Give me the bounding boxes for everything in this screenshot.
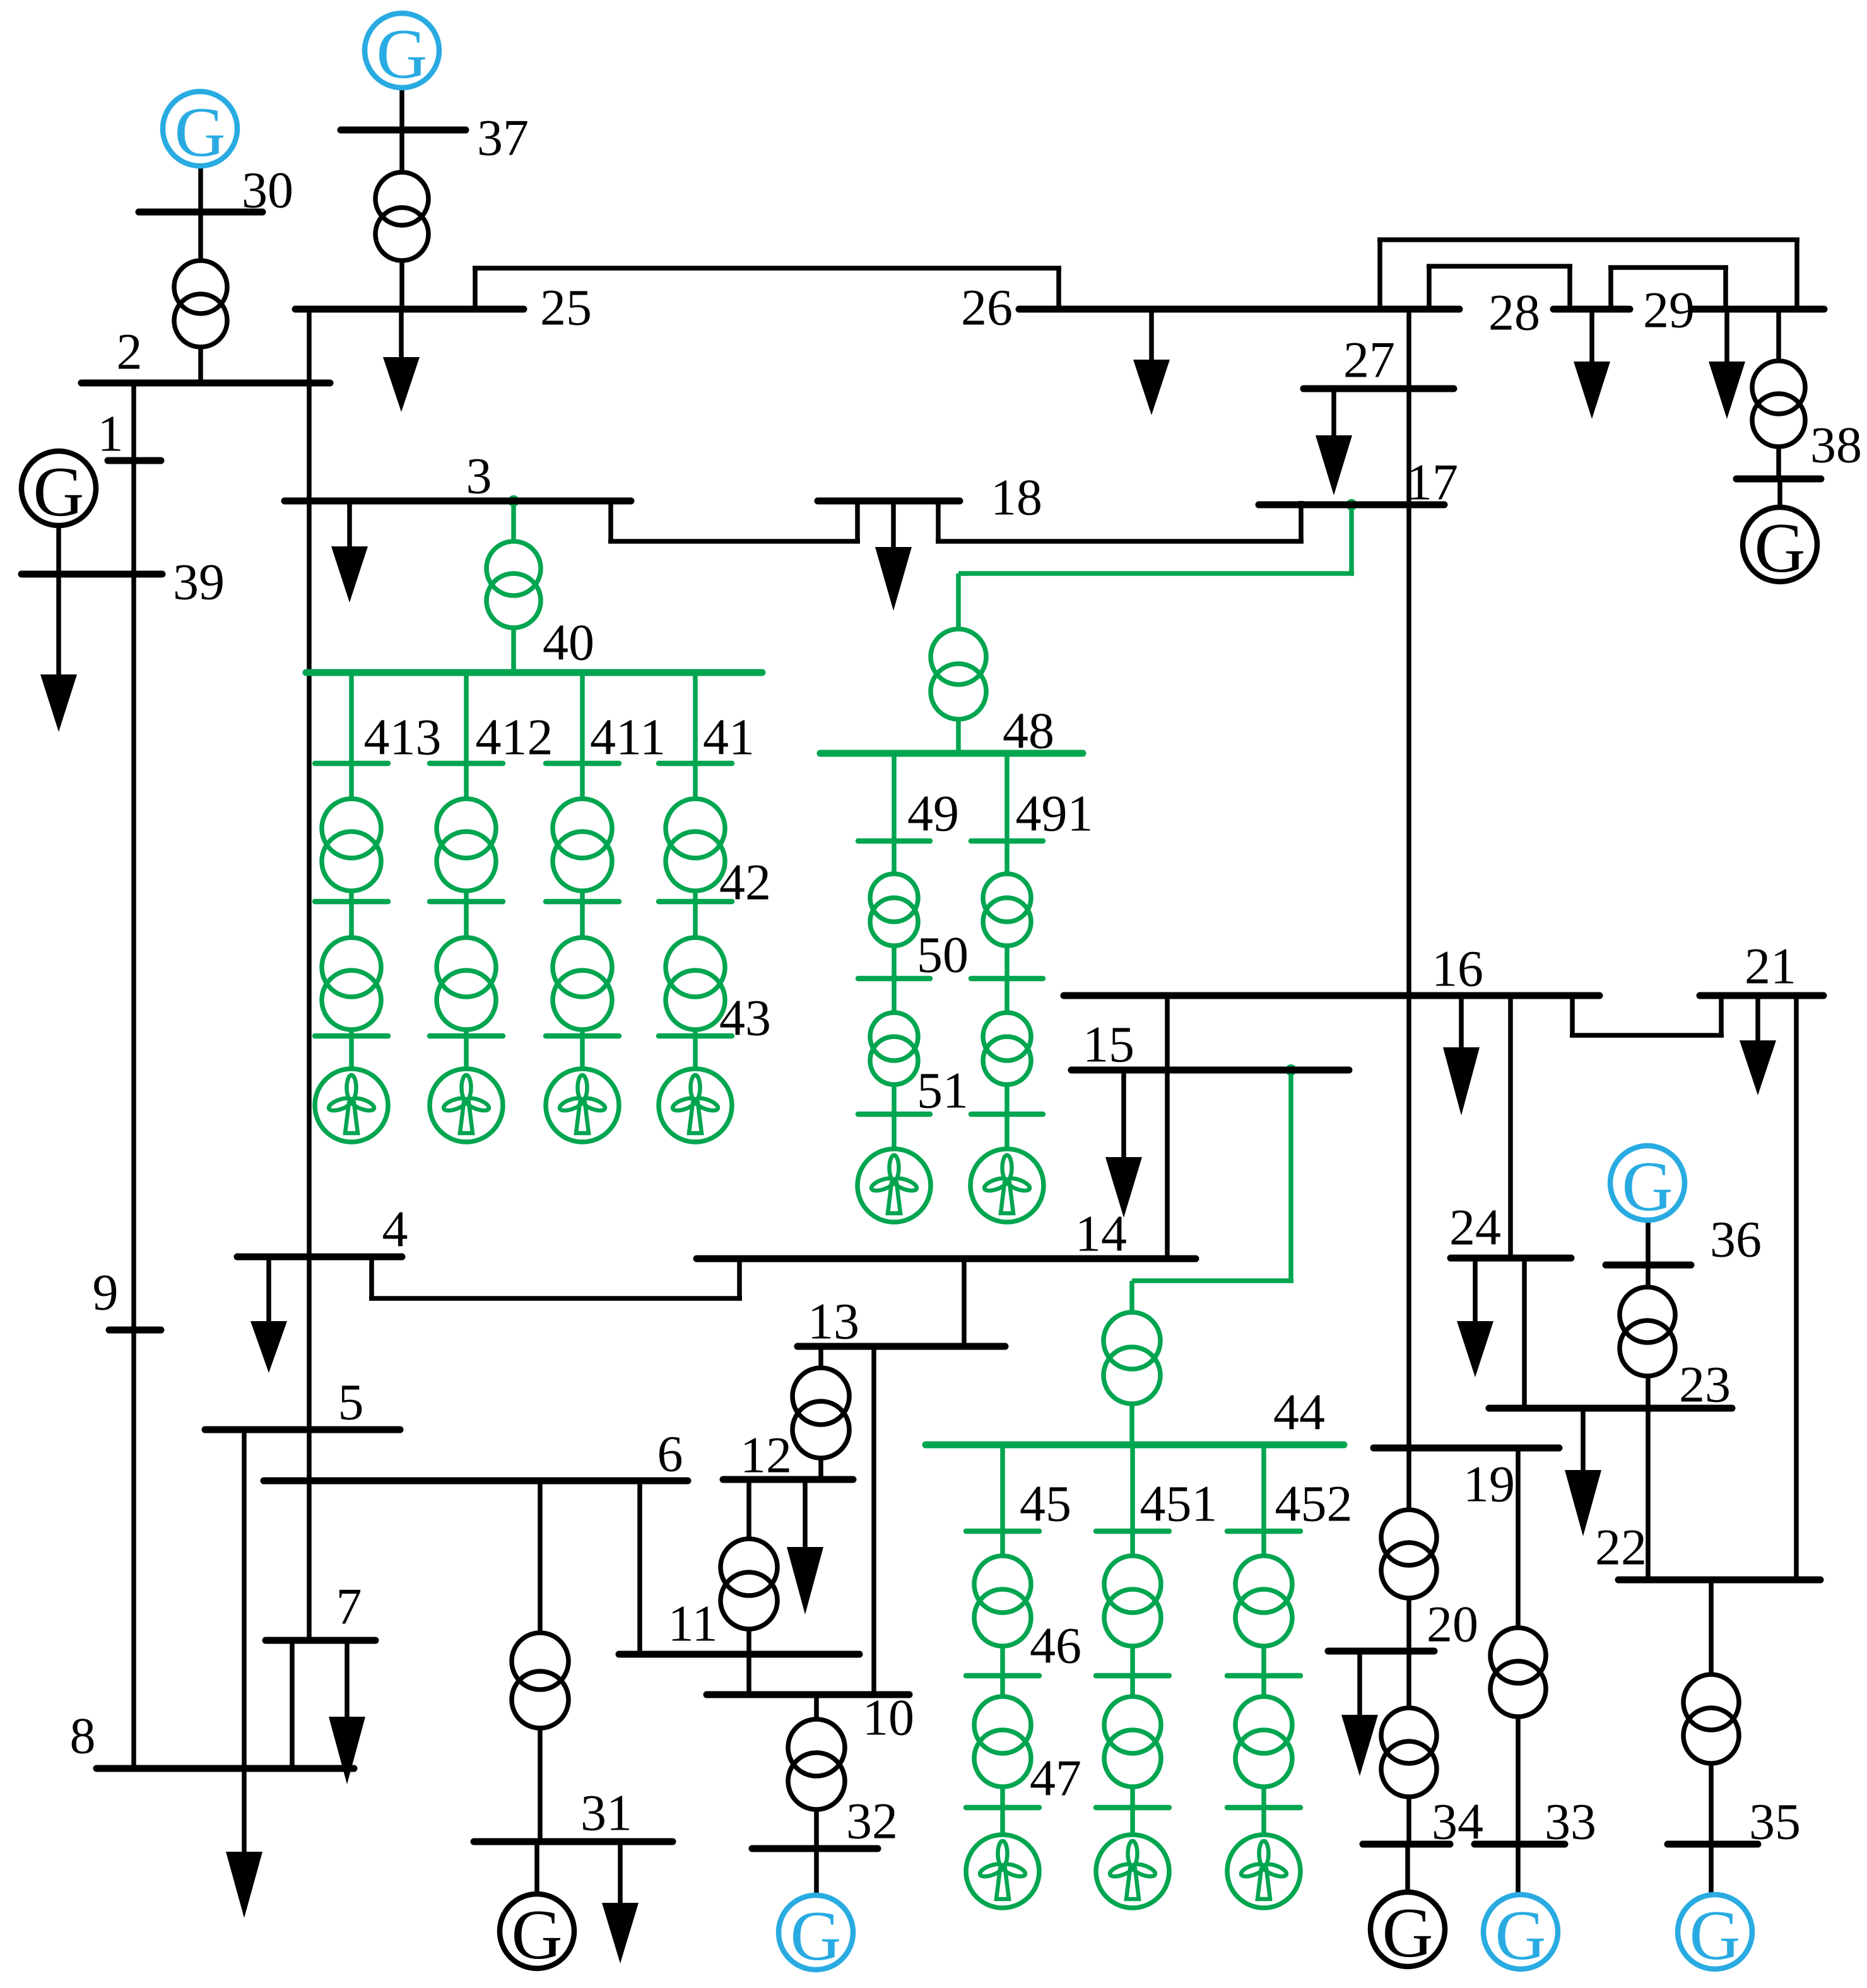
svg-text:22: 22 xyxy=(1595,1519,1647,1576)
bus 35 xyxy=(1668,1841,1758,1848)
wind turbine generator WTG col 49 xyxy=(857,1149,931,1222)
transformer T36-23 xyxy=(1620,1287,1675,1343)
wire bus25-line25-26 riser xyxy=(473,268,478,309)
bus 34 xyxy=(1363,1841,1450,1848)
svg-text:16: 16 xyxy=(1432,940,1483,997)
wire bus26-bus27-bus17-bus16-bus19 xyxy=(1406,309,1411,1448)
transformer T20-34 xyxy=(1381,1708,1437,1763)
bus 22 xyxy=(1618,1577,1820,1584)
generator G31 xyxy=(500,1894,574,1968)
load arrow bus4 xyxy=(266,1257,271,1321)
svg-text:21: 21 xyxy=(1745,938,1796,995)
svg-text:451: 451 xyxy=(1140,1475,1218,1532)
bus 36 tick xyxy=(1606,1262,1691,1269)
svg-text:G: G xyxy=(1382,1894,1434,1972)
wire bus16-bus15-bus14 xyxy=(1165,996,1170,1259)
wire T-bus47 col 45 xyxy=(1000,1787,1005,1808)
wire bus49-T xyxy=(892,841,897,874)
generator G34 xyxy=(1370,1892,1445,1967)
bus 46 tick col 451 xyxy=(1096,1673,1169,1679)
bus 42 tick col 411 xyxy=(546,899,619,905)
svg-text:413: 413 xyxy=(364,709,442,766)
svg-text:491: 491 xyxy=(1016,785,1093,842)
svg-text:28: 28 xyxy=(1488,284,1540,341)
transformer T29-38 xyxy=(1752,361,1805,414)
bus 18 xyxy=(818,498,960,505)
transformer T13-12 xyxy=(792,1368,849,1425)
wire bus44-bus451 xyxy=(1130,1445,1135,1531)
wire G30-bus30-bus2 xyxy=(198,166,203,261)
wire bus43-WTG col 411 xyxy=(580,1036,585,1069)
wire T-bus42 col 41 xyxy=(693,891,698,902)
wire bus3-T40 (green) xyxy=(511,501,516,541)
bus 491 tick xyxy=(971,838,1043,844)
wire bus14-bus13 xyxy=(962,1259,967,1346)
wire bus412-T xyxy=(464,763,469,799)
transformer T451-46 xyxy=(1104,1556,1161,1613)
svg-text:G: G xyxy=(512,1896,563,1974)
transformer T50-51 col 491 xyxy=(983,1013,1031,1061)
bus 413 tick xyxy=(315,761,388,767)
load arrow bus15 xyxy=(1121,1070,1126,1157)
wire bus12-bus11-bus10 xyxy=(746,1479,751,1539)
wire bus51-WTG col 491 xyxy=(1004,1114,1010,1149)
svg-text:19: 19 xyxy=(1463,1456,1515,1513)
svg-text:46: 46 xyxy=(1030,1617,1081,1674)
wire T-bus42 col 411 xyxy=(580,891,585,902)
bus 11 xyxy=(619,1651,859,1658)
svg-text:15: 15 xyxy=(1083,1016,1134,1073)
bus 451 tick xyxy=(1096,1529,1169,1534)
generator G33 xyxy=(1483,1895,1558,1969)
node junction on bus3 xyxy=(508,495,519,507)
wire bus21-bus22 xyxy=(1794,996,1799,1580)
svg-text:2: 2 xyxy=(117,323,143,380)
svg-text:G: G xyxy=(1622,1148,1673,1226)
transformer T42-43 col 411 xyxy=(553,938,612,997)
wire bus22-bus35 xyxy=(1709,1580,1714,1674)
bus 50 tick col 49 xyxy=(858,976,930,982)
transformer T22-35 xyxy=(1683,1674,1739,1730)
wire bus38-G38 xyxy=(1777,479,1782,508)
svg-text:40: 40 xyxy=(543,614,594,671)
svg-text:452: 452 xyxy=(1275,1475,1353,1532)
bus 12 xyxy=(723,1476,853,1483)
load arrow bus23 xyxy=(1581,1408,1586,1470)
wire bus6-bus11 xyxy=(637,1481,642,1654)
wire bus4-bus14 link xyxy=(369,1257,374,1298)
bus 29 xyxy=(1693,306,1824,313)
wire bus46-T col 45 xyxy=(1000,1676,1005,1697)
load arrow bus28 xyxy=(1589,309,1594,362)
transformer T2-30 xyxy=(174,261,227,314)
svg-text:G: G xyxy=(175,93,226,172)
bus 16 xyxy=(1064,992,1599,999)
transformer T42-43 col 41 xyxy=(666,938,725,997)
bus 43 tick col 413 xyxy=(315,1033,388,1039)
wire bus40-bus41 xyxy=(693,673,698,763)
wire bus6-bus31 xyxy=(538,1481,543,1633)
load arrow bus7 xyxy=(345,1640,350,1717)
load arrow bus29 xyxy=(1724,309,1729,362)
bus 47 tick col 451 xyxy=(1096,1805,1169,1811)
svg-text:G: G xyxy=(1495,1897,1546,1975)
bus 50 tick col 491 xyxy=(971,976,1043,982)
bus 30 xyxy=(139,209,262,216)
generator G38 xyxy=(1743,507,1817,582)
wire T-bus46 col 45 xyxy=(1000,1646,1005,1676)
svg-text:47: 47 xyxy=(1030,1750,1081,1807)
wire bus40-bus411 xyxy=(580,673,585,763)
svg-text:39: 39 xyxy=(173,553,225,611)
svg-text:14: 14 xyxy=(1075,1205,1127,1262)
svg-text:12: 12 xyxy=(740,1426,792,1484)
bus 27 xyxy=(1304,385,1454,392)
bus 412 tick xyxy=(430,761,503,767)
bus 33 xyxy=(1475,1841,1565,1848)
svg-text:10: 10 xyxy=(863,1689,914,1746)
svg-text:G: G xyxy=(1690,1897,1741,1975)
bus 14 xyxy=(697,1256,1196,1262)
bus 6 xyxy=(264,1478,688,1485)
svg-text:G: G xyxy=(33,453,85,531)
wire bus35-G35 xyxy=(1709,1844,1714,1895)
wire bus46-T col 452 xyxy=(1261,1676,1266,1697)
bus 37 xyxy=(341,127,466,134)
bus 25 xyxy=(295,306,524,313)
bus 46 tick col 452 xyxy=(1227,1673,1300,1679)
wind turbine generator WTG col 413 xyxy=(315,1069,388,1142)
wire T-bus46 col 451 xyxy=(1130,1646,1135,1676)
wire G36-bus36-bus23-bus22 xyxy=(1646,1220,1651,1287)
load arrow bus18 xyxy=(891,501,896,547)
svg-text:412: 412 xyxy=(476,709,553,766)
bus 43 tick col 412 xyxy=(430,1033,503,1039)
node junction on bus17 xyxy=(1346,499,1357,510)
svg-text:34: 34 xyxy=(1432,1793,1483,1850)
transformer T10-32 xyxy=(788,1719,845,1776)
wire bus25-bus2-bus3-bus4-bus5-bus6-bus7 vertical xyxy=(307,309,312,1640)
generator G35 xyxy=(1678,1895,1752,1969)
wire T-bus42 col 413 xyxy=(349,891,354,902)
bus 45 tick xyxy=(966,1529,1039,1534)
wire T-bus43 col 41 xyxy=(693,1030,698,1036)
bus 40 xyxy=(306,669,762,676)
load arrow bus27 xyxy=(1331,389,1336,435)
wire bus7-bus8 xyxy=(290,1640,295,1768)
transformer T46-47 col 452 xyxy=(1235,1697,1292,1753)
bus 39 xyxy=(21,571,162,578)
bus 3 xyxy=(285,498,631,505)
load arrow bus16 xyxy=(1459,996,1464,1047)
bus 411 tick xyxy=(546,761,619,767)
wire T-bus46 col 452 xyxy=(1261,1646,1266,1676)
svg-text:27: 27 xyxy=(1343,331,1395,389)
svg-text:44: 44 xyxy=(1273,1384,1325,1441)
bus 19 xyxy=(1374,1445,1559,1452)
wire bus42-T col 41 xyxy=(693,902,698,938)
wire bus31-G31 xyxy=(534,1842,539,1895)
wire bus45-T xyxy=(1000,1531,1005,1556)
load arrow bus24 xyxy=(1473,1258,1478,1321)
bus 5 xyxy=(205,1426,400,1433)
svg-text:13: 13 xyxy=(808,1293,859,1350)
wire T-bus51 col 491 xyxy=(1004,1085,1010,1114)
svg-text:G: G xyxy=(1755,509,1806,587)
transformer T41-42 xyxy=(666,799,725,858)
wire bus47-WTG col 452 xyxy=(1261,1808,1266,1835)
wire bus40-bus412 xyxy=(464,673,469,763)
transformer T3-40 xyxy=(486,541,541,596)
bus 28 xyxy=(1553,306,1630,313)
wire bus29-bus38 xyxy=(1776,309,1781,361)
wire line25-26 horizontal xyxy=(473,266,1061,271)
wire bus451-T xyxy=(1130,1531,1135,1556)
wire bus19-bus20 xyxy=(1406,1448,1411,1510)
svg-text:1: 1 xyxy=(98,405,124,462)
wire bus50-T col 491 xyxy=(1004,979,1010,1013)
svg-text:26: 26 xyxy=(961,279,1013,336)
wind turbine generator WTG col 45 xyxy=(966,1835,1039,1908)
bus 42 tick col 413 xyxy=(315,899,388,905)
bus 452 tick xyxy=(1227,1529,1300,1534)
svg-text:29: 29 xyxy=(1643,281,1695,339)
svg-text:6: 6 xyxy=(657,1425,683,1483)
wire T-bus47 col 451 xyxy=(1130,1787,1135,1808)
svg-text:38: 38 xyxy=(1810,416,1862,474)
svg-text:G: G xyxy=(377,15,428,93)
bus 2 xyxy=(81,380,330,387)
generator G32 xyxy=(779,1895,853,1970)
bus 20 xyxy=(1328,1648,1434,1655)
wire G37-bus37-bus25 xyxy=(399,88,404,172)
wire T-bus51 col 49 xyxy=(892,1085,897,1114)
wire bus42-T col 412 xyxy=(464,902,469,938)
wire bus24-bus23 xyxy=(1522,1258,1527,1408)
svg-text:51: 51 xyxy=(917,1062,969,1119)
wind turbine generator WTG col 41 xyxy=(659,1069,732,1142)
svg-text:17: 17 xyxy=(1406,454,1458,511)
transformer T50-51 col 49 xyxy=(870,1013,918,1061)
svg-text:43: 43 xyxy=(719,989,771,1047)
transformer T19-20 xyxy=(1381,1510,1437,1565)
wire bus34-G34 xyxy=(1405,1844,1410,1893)
svg-text:24: 24 xyxy=(1449,1199,1501,1256)
wire bus10-bus32 xyxy=(814,1695,819,1719)
bus 51 tick col 491 xyxy=(971,1112,1043,1117)
svg-text:49: 49 xyxy=(907,785,959,842)
wire bus13-bus10 xyxy=(871,1346,876,1695)
wind turbine generator WTG col 491 xyxy=(970,1149,1044,1222)
wire T-bus43 col 413 xyxy=(349,1030,354,1036)
generator G37 xyxy=(365,13,439,88)
svg-text:32: 32 xyxy=(846,1792,898,1850)
bus 1 tick xyxy=(108,457,161,464)
load arrow bus39 xyxy=(56,574,61,674)
svg-text:5: 5 xyxy=(338,1373,364,1431)
bus 46 tick col 45 xyxy=(966,1673,1039,1679)
svg-text:7: 7 xyxy=(336,1578,362,1635)
bus 42 tick col 412 xyxy=(430,899,503,905)
svg-text:11: 11 xyxy=(668,1595,718,1652)
wind turbine generator WTG col 452 xyxy=(1227,1835,1300,1908)
load arrow bus3 xyxy=(347,501,352,546)
wire bus47-WTG col 45 xyxy=(1000,1808,1005,1835)
bus 9 tick xyxy=(109,1327,161,1334)
transformer T37-25 xyxy=(375,172,428,225)
wire bus42-T col 411 xyxy=(580,902,585,938)
bus 13 xyxy=(798,1343,1005,1350)
wind turbine generator WTG col 412 xyxy=(430,1069,503,1142)
svg-text:411: 411 xyxy=(590,709,666,766)
generator G30 xyxy=(163,91,237,166)
wire bus413-T xyxy=(349,763,354,799)
bus 7 xyxy=(266,1637,375,1644)
bus 10 xyxy=(707,1691,909,1698)
transformer T42-43 col 413 xyxy=(322,938,381,997)
svg-text:31: 31 xyxy=(580,1784,632,1842)
svg-text:3: 3 xyxy=(466,447,492,505)
wire bus42-T col 413 xyxy=(349,902,354,938)
wire bus18-bus17 link xyxy=(936,501,941,541)
transformer T45-46 xyxy=(974,1556,1031,1613)
wire T-bus42 col 412 xyxy=(464,891,469,902)
wire bus44-bus452 xyxy=(1261,1445,1266,1531)
wire line25-26 drop to bus26 xyxy=(1056,268,1061,309)
transformer T6-31 xyxy=(512,1633,568,1690)
wire bus43-WTG col 413 xyxy=(349,1036,354,1069)
wire T-bus43 col 411 xyxy=(580,1030,585,1036)
transformer T46-47 col 451 xyxy=(1104,1697,1161,1753)
svg-text:50: 50 xyxy=(917,926,969,984)
svg-text:9: 9 xyxy=(93,1264,119,1321)
bus 15 xyxy=(1071,1067,1349,1074)
load arrow bus25 xyxy=(399,309,404,357)
transformer T412-42 xyxy=(437,799,496,858)
wire bus43-WTG col 412 xyxy=(464,1036,469,1069)
svg-text:30: 30 xyxy=(242,162,293,219)
wind turbine generator WTG col 451 xyxy=(1096,1835,1169,1908)
bus 49 tick xyxy=(858,838,930,844)
bus 17 xyxy=(1259,502,1444,509)
wire bus43-WTG col 41 xyxy=(693,1036,698,1069)
svg-text:20: 20 xyxy=(1427,1596,1478,1653)
load arrow bus26 xyxy=(1149,309,1154,360)
wire bus26-bus29 outer link xyxy=(1377,240,1382,309)
bus 31 xyxy=(474,1838,673,1845)
transformer T17-48 xyxy=(931,629,986,685)
bus 24 xyxy=(1451,1255,1571,1262)
bus 51 tick col 49 xyxy=(858,1112,930,1117)
wire bus40-bus413 xyxy=(349,673,354,763)
generator G36 xyxy=(1610,1146,1685,1220)
wire bus2-bus1-bus39-bus9-bus8 vertical xyxy=(131,383,136,1768)
wire T-bus47 col 452 xyxy=(1261,1787,1266,1808)
wire T-bus50 col 49 xyxy=(892,946,897,979)
bus 42 tick col 41 xyxy=(659,899,732,905)
bus 21 xyxy=(1700,992,1823,999)
wire bus16-bus24 xyxy=(1508,996,1513,1258)
bus 44 xyxy=(926,1442,1344,1449)
bus 26 xyxy=(1019,306,1459,313)
wire bus20-bus34 xyxy=(1406,1651,1411,1708)
wire bus491-T xyxy=(1004,841,1010,874)
wire bus33-G33 xyxy=(1516,1844,1521,1895)
wire bus5-bus8 xyxy=(242,1430,247,1768)
wire bus32-G32 xyxy=(814,1849,819,1896)
transformer T411-42 xyxy=(553,799,612,858)
bus 23 xyxy=(1489,1405,1732,1412)
svg-text:42: 42 xyxy=(719,854,771,911)
transformer T15-44 xyxy=(1104,1312,1160,1369)
wire bus19-bus33 xyxy=(1516,1448,1521,1628)
wire T-bus43 col 412 xyxy=(464,1030,469,1036)
svg-text:36: 36 xyxy=(1710,1211,1762,1268)
wire T44-bus44 xyxy=(1129,1404,1134,1445)
bus 47 tick col 45 xyxy=(966,1805,1039,1811)
svg-text:8: 8 xyxy=(70,1707,96,1765)
bus 32 xyxy=(752,1845,878,1852)
bus 4 xyxy=(237,1254,402,1261)
transformer T452-46 xyxy=(1235,1556,1292,1613)
svg-text:48: 48 xyxy=(1003,702,1054,760)
wire bus50-T col 49 xyxy=(892,979,897,1013)
load arrow bus21 xyxy=(1755,996,1760,1040)
load arrow bus20 xyxy=(1357,1651,1362,1715)
wire bus47-WTG col 451 xyxy=(1130,1808,1135,1835)
wire bus48-bus49 xyxy=(892,753,897,841)
transformer T46-47 col 45 xyxy=(974,1697,1031,1753)
svg-text:45: 45 xyxy=(1020,1475,1071,1532)
wire bus48-bus491 xyxy=(1004,753,1010,841)
bus 38 xyxy=(1736,476,1821,483)
generator G1 (bus 39) xyxy=(21,451,96,526)
transformer T491-50 xyxy=(983,874,1031,922)
bus 47 tick col 452 xyxy=(1227,1805,1300,1811)
svg-text:4: 4 xyxy=(382,1201,408,1258)
wire T48 risers xyxy=(956,573,961,629)
bus 41 tick xyxy=(659,761,732,767)
wire bus28-bus29 link xyxy=(1608,268,1613,309)
wire bus26-bus28 link xyxy=(1427,266,1432,309)
transformer T12-11 xyxy=(721,1539,777,1596)
load arrow bus31 xyxy=(618,1842,623,1903)
wire bus44-bus45 xyxy=(1000,1445,1005,1531)
svg-text:35: 35 xyxy=(1749,1793,1801,1850)
node junction on bus15 xyxy=(1285,1064,1297,1076)
wire bus13-bus12 xyxy=(818,1346,823,1368)
bus 48 xyxy=(820,750,1083,757)
bus 43 tick col 41 xyxy=(659,1033,732,1039)
wire T40-bus40 xyxy=(511,628,516,673)
wire bus411-T xyxy=(580,763,585,799)
load arrow bus12 xyxy=(803,1479,808,1547)
svg-text:18: 18 xyxy=(991,469,1042,526)
svg-text:37: 37 xyxy=(477,109,529,167)
bus 8 xyxy=(97,1765,354,1772)
wire bus46-T col 451 xyxy=(1130,1676,1135,1697)
wire bus15-bus44 path (green) xyxy=(1288,1070,1293,1281)
wire bus51-WTG col 49 xyxy=(892,1114,897,1149)
svg-text:41: 41 xyxy=(703,709,755,766)
svg-text:33: 33 xyxy=(1545,1793,1596,1850)
wire bus452-T xyxy=(1261,1531,1266,1556)
wire bus41-T xyxy=(693,763,698,799)
wire G1-bus39 xyxy=(56,526,61,574)
wire bus17-bus48 path (green) xyxy=(1349,505,1354,573)
wind turbine generator WTG col 411 xyxy=(546,1069,619,1142)
transformer T19-33 xyxy=(1490,1628,1546,1683)
